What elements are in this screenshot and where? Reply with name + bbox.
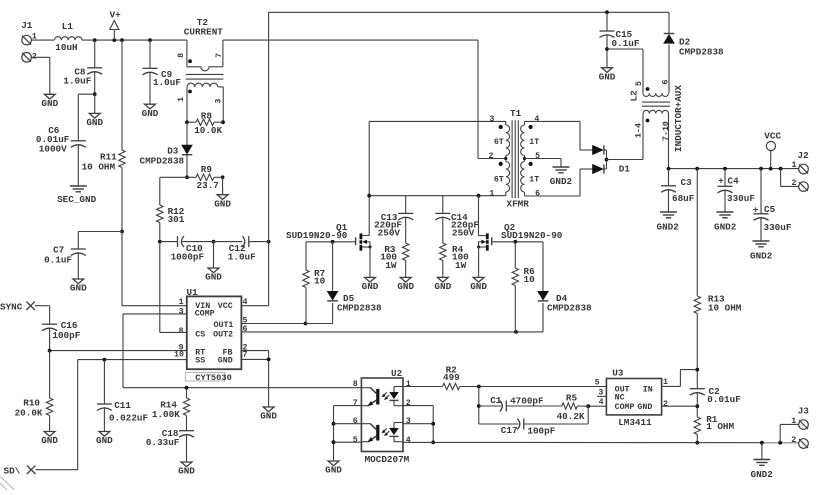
svg-text:J2: J2 — [798, 150, 810, 161]
svg-text:C3: C3 — [681, 177, 693, 188]
svg-text:20.0K: 20.0K — [15, 408, 43, 419]
svg-text:5: 5 — [635, 81, 644, 86]
svg-text:IN: IN — [643, 385, 653, 394]
svg-text:SUD19N20-90: SUD19N20-90 — [286, 230, 348, 241]
svg-text:C4: C4 — [728, 176, 740, 187]
svg-text:U3: U3 — [612, 367, 624, 378]
svg-text:4: 4 — [599, 398, 604, 407]
svg-text:1W: 1W — [385, 260, 397, 271]
svg-text:68uF: 68uF — [672, 193, 695, 204]
svg-text:5: 5 — [535, 152, 540, 161]
svg-text:GND: GND — [178, 466, 195, 477]
svg-text:1: 1 — [792, 161, 797, 170]
svg-text:1-4: 1-4 — [634, 123, 643, 138]
svg-text:GND: GND — [86, 117, 103, 128]
svg-text:SUD19N20-90: SUD19N20-90 — [501, 230, 563, 241]
svg-text:COMP: COMP — [615, 403, 635, 412]
svg-text:3: 3 — [406, 417, 411, 426]
svg-text:SS: SS — [195, 356, 205, 365]
svg-text:GND: GND — [205, 272, 222, 283]
svg-text:23.7: 23.7 — [197, 180, 219, 191]
svg-text:7: 7 — [215, 53, 224, 58]
svg-text:GND: GND — [470, 281, 487, 292]
svg-text:GND2: GND2 — [751, 469, 774, 480]
svg-text:GND: GND — [142, 108, 159, 119]
svg-text:CURRENT: CURRENT — [184, 27, 223, 38]
svg-text:1W: 1W — [455, 260, 467, 271]
svg-text:GND: GND — [599, 71, 616, 82]
svg-text:10 OHM: 10 OHM — [82, 161, 116, 172]
svg-text:1.0uF: 1.0uF — [228, 251, 256, 262]
svg-text:2: 2 — [663, 400, 668, 409]
svg-text:GND2: GND2 — [657, 221, 680, 232]
svg-text:3: 3 — [179, 308, 184, 317]
svg-text:GND: GND — [260, 411, 277, 422]
svg-text:NC: NC — [615, 394, 625, 403]
svg-text:40.2K: 40.2K — [557, 411, 585, 422]
svg-text:GND2: GND2 — [550, 176, 573, 187]
svg-text:301: 301 — [168, 214, 185, 225]
svg-text:V+: V+ — [110, 10, 122, 21]
svg-text:10: 10 — [524, 274, 536, 285]
svg-text:10.0K: 10.0K — [194, 125, 222, 136]
svg-text:1T: 1T — [529, 138, 539, 147]
svg-text:CMPD2838: CMPD2838 — [337, 302, 382, 313]
svg-text:0.01uF: 0.01uF — [707, 394, 741, 405]
svg-text:0.33uF: 0.33uF — [146, 437, 180, 448]
svg-text:1T: 1T — [529, 175, 539, 184]
svg-text:0.1uF: 0.1uF — [612, 38, 640, 49]
svg-text:U2: U2 — [391, 368, 403, 379]
svg-text:D1: D1 — [619, 164, 631, 175]
svg-text:1 OHM: 1 OHM — [706, 421, 734, 432]
svg-text:OUT2: OUT2 — [213, 331, 233, 340]
svg-text:CMPD2838: CMPD2838 — [547, 302, 592, 313]
svg-text:6: 6 — [243, 325, 248, 334]
svg-text:J1: J1 — [21, 20, 33, 31]
svg-text:250V: 250V — [378, 227, 401, 238]
svg-text:GND: GND — [96, 435, 113, 446]
svg-text:GND: GND — [434, 281, 451, 292]
svg-text:C11: C11 — [114, 400, 131, 411]
svg-text:7: 7 — [243, 350, 248, 359]
svg-text:R9: R9 — [201, 164, 213, 175]
svg-text:GND: GND — [637, 403, 652, 412]
svg-text:2: 2 — [791, 436, 796, 445]
svg-text:LM3411: LM3411 — [618, 417, 652, 428]
svg-text:2: 2 — [792, 179, 797, 188]
svg-text:7: 7 — [353, 399, 358, 408]
svg-text:1: 1 — [663, 378, 668, 387]
svg-text:499: 499 — [443, 372, 460, 383]
svg-text:10uH: 10uH — [55, 42, 77, 53]
svg-text:3: 3 — [489, 115, 494, 124]
svg-text:GND2: GND2 — [750, 250, 773, 261]
svg-text:10: 10 — [314, 275, 326, 286]
svg-text:1: 1 — [489, 190, 494, 199]
svg-text:GND: GND — [70, 283, 87, 294]
svg-text:R8: R8 — [201, 110, 213, 121]
svg-text:6: 6 — [353, 417, 358, 426]
svg-text:GND: GND — [214, 198, 231, 209]
svg-text:GND: GND — [41, 98, 58, 109]
svg-text:R5: R5 — [566, 392, 578, 403]
svg-text:GND: GND — [397, 281, 414, 292]
svg-text:+: + — [753, 205, 758, 215]
svg-text:1: 1 — [406, 380, 411, 389]
svg-text:CMPD2838: CMPD2838 — [140, 156, 185, 167]
svg-text:10: 10 — [174, 350, 184, 359]
svg-text:XFMR: XFMR — [507, 199, 530, 210]
svg-text:1.0uF: 1.0uF — [153, 77, 181, 88]
svg-text:VCC: VCC — [218, 302, 233, 311]
svg-text:0.1uF: 0.1uF — [44, 255, 72, 266]
svg-text:6T: 6T — [494, 175, 504, 184]
svg-text:8: 8 — [177, 53, 186, 58]
svg-text:SD\: SD\ — [4, 466, 21, 477]
svg-text:4: 4 — [406, 436, 411, 445]
svg-text:330uF: 330uF — [764, 222, 792, 233]
svg-text:GND: GND — [41, 435, 58, 446]
svg-text:CYT5030: CYT5030 — [195, 373, 232, 383]
svg-text:T1: T1 — [510, 108, 522, 119]
svg-text:8: 8 — [179, 327, 184, 336]
svg-text:MOCD207M: MOCD207M — [365, 454, 410, 465]
svg-text:C17: C17 — [501, 425, 518, 436]
svg-text:6: 6 — [535, 190, 540, 199]
svg-text:6: 6 — [661, 80, 670, 85]
svg-text:GND2: GND2 — [714, 221, 737, 232]
svg-text:SYNC: SYNC — [0, 301, 23, 312]
svg-text:GND: GND — [218, 356, 233, 365]
svg-text:COMP: COMP — [195, 310, 215, 319]
svg-text:6T: 6T — [494, 138, 504, 147]
svg-text:VCC: VCC — [764, 131, 781, 142]
svg-text:1000pF: 1000pF — [171, 251, 205, 262]
svg-text:CS: CS — [195, 331, 205, 340]
svg-text:+: + — [718, 177, 723, 187]
svg-text:GND: GND — [325, 465, 342, 476]
svg-text:CMPD2838: CMPD2838 — [679, 47, 724, 58]
svg-text:100pF: 100pF — [52, 330, 80, 341]
svg-text:4700pF: 4700pF — [510, 396, 544, 407]
svg-text:L2: L2 — [628, 90, 639, 102]
svg-text:100pF: 100pF — [527, 426, 555, 437]
svg-text:7-10: 7-10 — [662, 121, 671, 141]
svg-text:2: 2 — [489, 152, 494, 161]
svg-text:330uF: 330uF — [727, 193, 755, 204]
svg-text:J3: J3 — [798, 405, 810, 416]
svg-text:C1: C1 — [490, 395, 502, 406]
svg-text:U1: U1 — [187, 287, 199, 298]
svg-text:3: 3 — [214, 99, 223, 104]
svg-text:1: 1 — [177, 97, 186, 102]
svg-text:250V: 250V — [452, 227, 475, 238]
svg-text:4: 4 — [534, 115, 539, 124]
svg-text:0.022uF: 0.022uF — [109, 413, 148, 424]
svg-text:INDUCTOR+AUX: INDUCTOR+AUX — [673, 85, 684, 152]
svg-text:1000V: 1000V — [39, 144, 67, 155]
svg-text:1.0uF: 1.0uF — [63, 75, 91, 86]
svg-text:2: 2 — [406, 399, 411, 408]
svg-text:OUT1: OUT1 — [214, 321, 234, 330]
svg-text:SEC_GND: SEC_GND — [57, 194, 96, 205]
svg-text:10 OHM: 10 OHM — [708, 303, 742, 314]
svg-text:L1: L1 — [62, 21, 74, 32]
svg-text:5: 5 — [353, 436, 358, 445]
svg-text:GND: GND — [362, 281, 379, 292]
svg-text:1.00K: 1.00K — [152, 409, 180, 420]
svg-text:C5: C5 — [764, 204, 776, 215]
